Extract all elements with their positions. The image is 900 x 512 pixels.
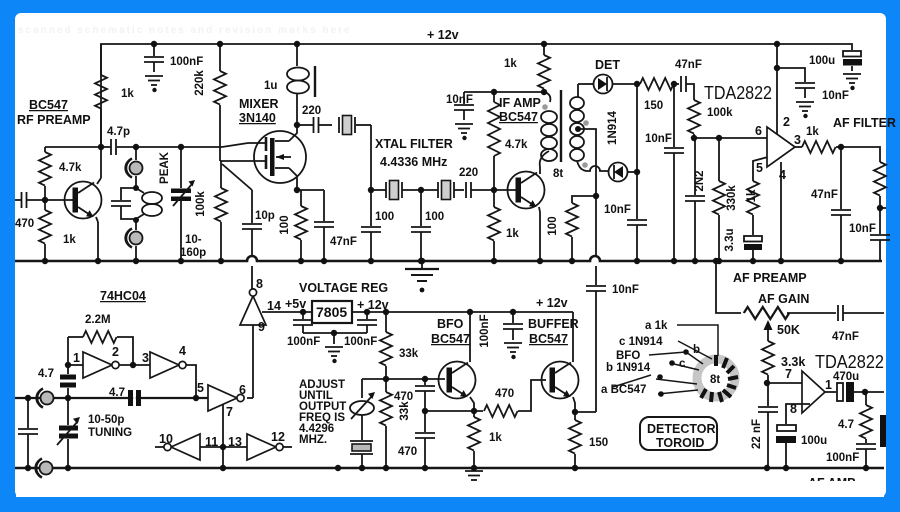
svg-text:6: 6 (755, 124, 762, 138)
svg-text:150: 150 (589, 437, 608, 449)
svg-text:10nF: 10nF (612, 284, 639, 296)
svg-text:TOROID: TOROID (656, 436, 704, 450)
svg-text:5: 5 (197, 381, 204, 395)
svg-text:b: b (693, 344, 700, 356)
svg-text:100k: 100k (195, 191, 207, 217)
svg-text:100nF: 100nF (344, 336, 377, 348)
svg-text:c: c (679, 358, 686, 370)
svg-text:XTAL FILTER: XTAL FILTER (375, 137, 453, 151)
svg-text:BUFFER: BUFFER (528, 317, 579, 331)
svg-text:100: 100 (279, 215, 291, 234)
svg-text:1N914: 1N914 (607, 110, 619, 144)
svg-text:10: 10 (159, 432, 173, 446)
svg-text:1k: 1k (504, 58, 517, 70)
svg-text:8t: 8t (710, 374, 720, 386)
svg-text:AF GAIN: AF GAIN (758, 292, 809, 306)
svg-text:3: 3 (142, 351, 149, 365)
svg-text:10p: 10p (255, 210, 275, 222)
svg-text:TDA2822: TDA2822 (704, 83, 772, 103)
svg-text:BC547: BC547 (431, 332, 470, 346)
svg-text:3N140: 3N140 (239, 111, 276, 125)
svg-text:+ 12v: + 12v (427, 28, 459, 42)
svg-text:33k: 33k (399, 348, 419, 360)
svg-text:470: 470 (495, 388, 514, 400)
svg-text:BFO: BFO (616, 350, 640, 362)
svg-text:4.7k: 4.7k (505, 139, 528, 151)
svg-text:RF PREAMP: RF PREAMP (17, 113, 91, 127)
svg-text:1k: 1k (489, 432, 502, 444)
svg-text:100u: 100u (809, 55, 835, 67)
svg-text:2.2M: 2.2M (85, 314, 111, 326)
svg-text:PEAK: PEAK (159, 151, 171, 184)
svg-text:220: 220 (459, 167, 478, 179)
svg-text:47nF: 47nF (330, 236, 357, 248)
svg-text:8: 8 (256, 277, 263, 291)
svg-text:BFO: BFO (437, 317, 464, 331)
svg-text:10nF: 10nF (849, 223, 876, 235)
svg-text:11: 11 (205, 435, 218, 449)
svg-text:7: 7 (785, 367, 792, 381)
svg-text:470u: 470u (833, 371, 859, 383)
svg-text:b 1N914: b 1N914 (606, 362, 651, 374)
svg-text:220: 220 (302, 105, 321, 117)
svg-text:1k: 1k (63, 234, 76, 246)
svg-text:TDA2822: TDA2822 (815, 352, 884, 372)
svg-text:13: 13 (228, 435, 242, 449)
svg-text:AF FILTER: AF FILTER (833, 116, 896, 130)
svg-text:470: 470 (398, 446, 417, 458)
svg-text:4.7k: 4.7k (59, 162, 82, 174)
svg-text:14: 14 (267, 299, 281, 313)
svg-text:BC547: BC547 (29, 98, 68, 112)
svg-text:MIXER: MIXER (239, 97, 279, 111)
svg-text:2: 2 (783, 115, 790, 129)
svg-text:10nF: 10nF (645, 133, 672, 145)
svg-text:7805: 7805 (316, 304, 347, 320)
svg-text:7: 7 (226, 405, 233, 419)
svg-text:3.3u: 3.3u (724, 228, 736, 251)
svg-text:33k: 33k (399, 401, 411, 421)
svg-text:47nF: 47nF (811, 189, 838, 201)
svg-text:50K: 50K (777, 323, 800, 337)
svg-text:100u: 100u (801, 435, 827, 447)
svg-text:4.7: 4.7 (838, 419, 854, 431)
svg-text:2N2: 2N2 (694, 170, 706, 191)
svg-text:330k: 330k (726, 185, 738, 211)
svg-text:1k: 1k (506, 228, 519, 240)
svg-text:DET: DET (595, 58, 620, 72)
svg-text:1: 1 (825, 378, 832, 392)
svg-text:2: 2 (112, 345, 119, 359)
svg-text:470: 470 (394, 391, 413, 403)
svg-text:100: 100 (547, 216, 559, 235)
svg-text:22 nF: 22 nF (751, 419, 763, 449)
svg-text:100: 100 (375, 211, 394, 223)
svg-text:47nF: 47nF (675, 59, 702, 71)
svg-text:c 1N914: c 1N914 (619, 336, 663, 348)
svg-text:12: 12 (271, 430, 285, 444)
svg-text:100: 100 (425, 211, 444, 223)
svg-text:4: 4 (179, 344, 186, 358)
svg-text:AF PREAMP: AF PREAMP (733, 271, 807, 285)
svg-text:4.7: 4.7 (109, 387, 125, 399)
svg-text:6: 6 (239, 383, 246, 397)
svg-text:10-: 10- (185, 234, 202, 246)
svg-text:47nF: 47nF (832, 331, 859, 343)
svg-text:5: 5 (756, 161, 763, 175)
svg-text:9: 9 (258, 320, 265, 334)
svg-text:74HC04: 74HC04 (100, 289, 146, 303)
svg-text:3: 3 (794, 133, 801, 147)
svg-text:470: 470 (15, 218, 34, 230)
svg-text:100nF: 100nF (287, 336, 320, 348)
svg-text:VOLTAGE REG: VOLTAGE REG (299, 281, 388, 295)
svg-text:100nF: 100nF (479, 314, 491, 347)
svg-text:100nF: 100nF (826, 452, 859, 464)
svg-text:10nF: 10nF (604, 204, 631, 216)
svg-text:1k: 1k (121, 88, 134, 100)
svg-text:TUNING: TUNING (88, 427, 132, 439)
svg-text:MHZ.: MHZ. (299, 434, 327, 446)
svg-text:160p: 160p (180, 247, 206, 259)
svg-text:10nF: 10nF (446, 94, 473, 106)
svg-text:1u: 1u (264, 80, 277, 92)
svg-text:a 1k: a 1k (645, 320, 668, 332)
svg-text:IF AMP: IF AMP (499, 96, 541, 110)
svg-text:scanned schematic notes and re: scanned schematic notes and revision mar… (18, 25, 352, 36)
svg-text:220k: 220k (194, 70, 206, 96)
svg-text:4.7p: 4.7p (107, 126, 130, 138)
svg-text:1: 1 (73, 351, 80, 365)
svg-text:100k: 100k (707, 107, 733, 119)
svg-text:150: 150 (644, 100, 663, 112)
svg-text:4.4336 MHz: 4.4336 MHz (380, 155, 447, 169)
svg-text:8: 8 (790, 402, 797, 416)
svg-text:1k: 1k (746, 189, 758, 202)
svg-text:+5v: +5v (285, 297, 306, 311)
svg-text:DETECTOR: DETECTOR (647, 422, 716, 436)
svg-text:+ 12v: + 12v (357, 298, 389, 312)
svg-text:10-50p: 10-50p (88, 414, 124, 426)
svg-text:+ 12v: + 12v (536, 296, 568, 310)
svg-text:4: 4 (779, 168, 786, 182)
svg-text:8t: 8t (553, 168, 563, 180)
svg-text:a BC547: a BC547 (601, 384, 646, 396)
svg-text:1k: 1k (806, 126, 819, 138)
svg-text:BC547: BC547 (499, 110, 538, 124)
svg-text:10nF: 10nF (822, 90, 849, 102)
svg-text:100nF: 100nF (170, 56, 203, 68)
svg-text:4.7: 4.7 (38, 368, 54, 380)
svg-text:BC547: BC547 (529, 332, 568, 346)
